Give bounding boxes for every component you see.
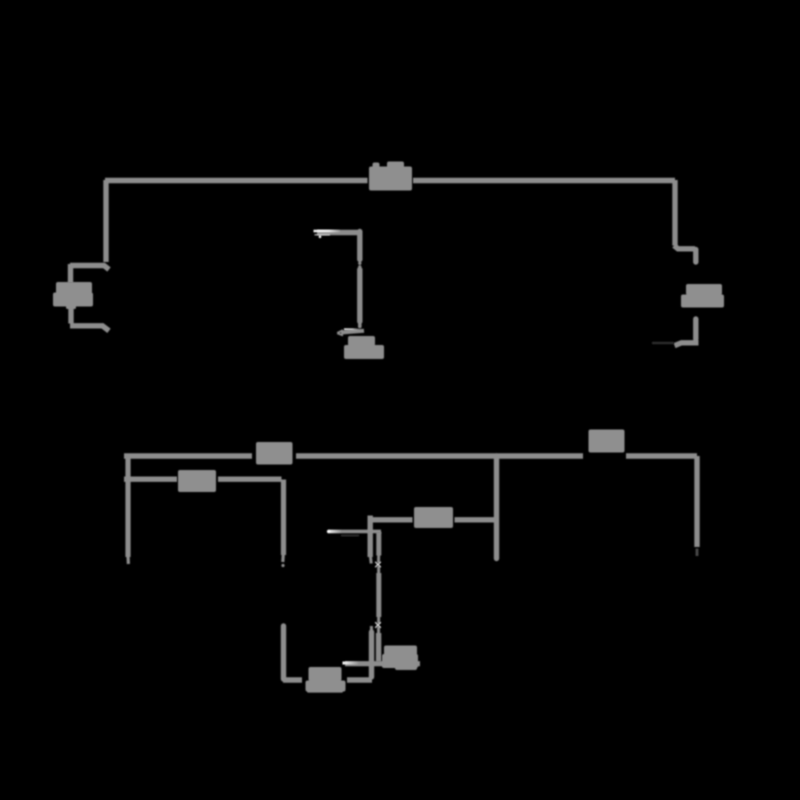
white X joint lower bbox=[375, 622, 381, 628]
faint tip below bottom right vertical bbox=[696, 549, 699, 557]
wire bottom left lower vertical bbox=[281, 626, 286, 679]
wire right source top stub bbox=[693, 250, 698, 263]
arrowhead ground pointer bbox=[337, 330, 343, 335]
junction dots middle probe bbox=[358, 262, 361, 265]
wire bottom elbow of source branch bbox=[70, 326, 109, 331]
ground label blob bbox=[348, 336, 375, 346]
white streak band pointer bbox=[343, 662, 360, 665]
wire right bottom elbow bbox=[675, 343, 699, 346]
wire bottom left vertical bbox=[125, 456, 130, 557]
white arrowhead streak middle probe bbox=[314, 230, 341, 233]
wire jog into source top bbox=[70, 266, 109, 270]
wire top horizontal net V1-R1 bbox=[105, 178, 368, 183]
wire S1 vertical left bbox=[368, 516, 373, 558]
wire mid horizontal cap branch bbox=[368, 517, 413, 522]
wire middle probe vertical lower bbox=[357, 270, 362, 322]
white X joint upper bbox=[375, 562, 381, 567]
wire S3 vertical left lower bbox=[370, 626, 373, 633]
white streak capacitor pointer bbox=[328, 530, 381, 534]
wire source top stub bbox=[68, 264, 73, 283]
wire S4 vertical right lower bbox=[377, 627, 380, 635]
wire right source bottom stub bbox=[693, 319, 698, 339]
wire right vertical from top rail bbox=[672, 180, 677, 246]
white streak ground pointer bbox=[344, 328, 360, 330]
wire left vertical from top rail bbox=[103, 180, 108, 262]
dim faint lines bbox=[652, 343, 697, 556]
resistor R3 label blob bbox=[589, 430, 625, 453]
wire bottom mid branch vertical bbox=[494, 456, 499, 559]
source V1 label blob bbox=[56, 282, 92, 294]
wire label underline band bbox=[345, 661, 420, 666]
source V2 label blob bbox=[686, 284, 722, 295]
resistor R4 label blob bbox=[178, 470, 216, 492]
resistor R2 label blob bbox=[256, 442, 293, 465]
resistor R1 label+body blob bbox=[369, 167, 412, 191]
label blobs bbox=[53, 162, 724, 693]
wire right jog bbox=[674, 246, 695, 249]
faint line left of right-bottom elbow bbox=[652, 342, 674, 344]
wire source bottom stub bbox=[68, 306, 73, 324]
probe tip diamond bbox=[358, 324, 362, 327]
wire bottom right vertical bbox=[694, 456, 699, 547]
wire bottom second rail bbox=[124, 477, 177, 482]
wire S2 vertical right bbox=[376, 532, 381, 556]
joint dot below bbox=[281, 564, 284, 567]
arrow shaft ground pointer bbox=[341, 331, 364, 333]
wire bottom top rail bbox=[124, 453, 252, 458]
capacitor C1 label blob bbox=[414, 507, 453, 528]
inductor L1 label blob bbox=[384, 646, 417, 656]
white arrow highlights bbox=[314, 231, 382, 663]
wire bottom second rail elbow vertical bbox=[281, 480, 286, 556]
wire middle probe horizontal bbox=[317, 230, 358, 235]
capacitor C2 label blob bbox=[309, 667, 342, 681]
wire bottom bottom rail bbox=[283, 677, 302, 682]
wire middle probe vertical upper bbox=[357, 232, 362, 260]
